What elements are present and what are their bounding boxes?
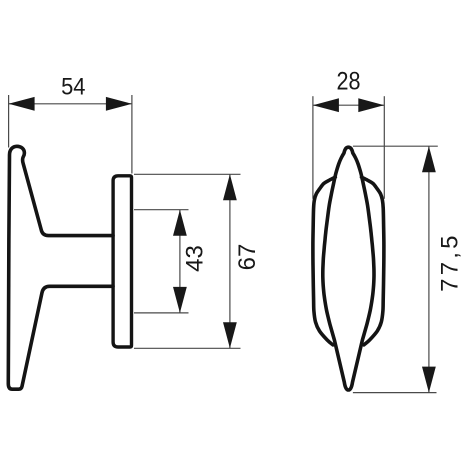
- extension line 43 bottom: [134, 312, 189, 314]
- dimension line 67: [229, 174, 231, 348]
- extension line 28 left: [312, 96, 314, 199]
- arrowhead 43 up: [173, 210, 187, 236]
- rose capsule right edge front view: [362, 177, 384, 345]
- dimension line 77,5: [428, 146, 430, 392]
- extension line 67 top: [134, 173, 241, 175]
- svg-text:43: 43: [182, 245, 209, 272]
- arrowhead 77,5 down: [422, 367, 436, 393]
- dimension line 43: [179, 210, 181, 313]
- rose capsule left edge front view: [313, 177, 335, 345]
- extension line 77,5 bottom: [353, 392, 437, 394]
- svg-text:28: 28: [337, 67, 361, 95]
- arrowhead 28 left: [313, 98, 339, 112]
- arrowhead 28 right: [358, 98, 384, 112]
- arrowhead 67 down: [223, 322, 237, 348]
- svg-text:67: 67: [234, 244, 261, 271]
- arrowhead 77,5 up: [422, 146, 436, 172]
- extension line 43 top: [134, 209, 189, 211]
- arrowhead 54 right: [106, 97, 132, 111]
- svg-text:54: 54: [61, 73, 85, 100]
- arrowhead 54 left: [9, 97, 35, 111]
- mounting plate side view: [113, 176, 131, 347]
- handle side-view outline: [8, 146, 113, 389]
- svg-text:77,5: 77,5: [437, 232, 464, 292]
- extension line 54 left: [8, 95, 10, 148]
- extension line 54 right: [131, 95, 133, 174]
- arrowhead 43 down: [173, 287, 187, 313]
- extension line 67 bottom: [134, 347, 241, 349]
- extension line 77,5 top: [353, 145, 438, 147]
- arrowhead 67 up: [223, 174, 237, 200]
- handle front-view lever (spindle): [323, 147, 374, 390]
- extension line 28 right: [383, 96, 385, 199]
- dimension line 28: [313, 104, 384, 106]
- dimension line 54: [9, 103, 132, 105]
